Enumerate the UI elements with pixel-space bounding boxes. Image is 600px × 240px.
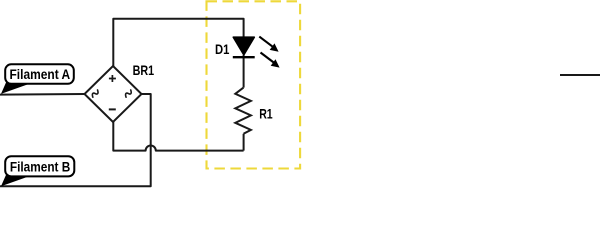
LED light arrows bbox=[259, 37, 279, 68]
bridge rectifier BR1 bbox=[85, 66, 142, 122]
wire Filament A to bridge left terminal bbox=[0, 93, 85, 96]
callout Filament A bbox=[1, 64, 74, 94]
wire D1 cathode to R1 bbox=[243, 55, 245, 88]
svg-text:R1: R1 bbox=[259, 107, 273, 122]
label BR1 bbox=[133, 63, 155, 78]
resistor R1 bbox=[235, 88, 251, 134]
wire bottom (bridge minus to R1, with hop) bbox=[113, 122, 243, 151]
svg-text:D1: D1 bbox=[215, 42, 230, 57]
wire stub right edge bbox=[560, 74, 600, 76]
wire bridge right terminal to Filament B line bbox=[0, 94, 151, 186]
LED D1 bbox=[233, 37, 255, 57]
svg-text:Filament A: Filament A bbox=[10, 67, 71, 82]
svg-text:BR1: BR1 bbox=[133, 63, 155, 78]
label R1 bbox=[259, 107, 273, 122]
label D1 bbox=[215, 42, 230, 57]
callout Filament B bbox=[1, 156, 74, 186]
svg-text:Filament B: Filament B bbox=[10, 160, 71, 175]
highlight box (dashed) bbox=[207, 1, 301, 168]
wire R1 bottom bbox=[243, 134, 245, 151]
wire top (bridge + to D1 anode) bbox=[113, 19, 243, 66]
